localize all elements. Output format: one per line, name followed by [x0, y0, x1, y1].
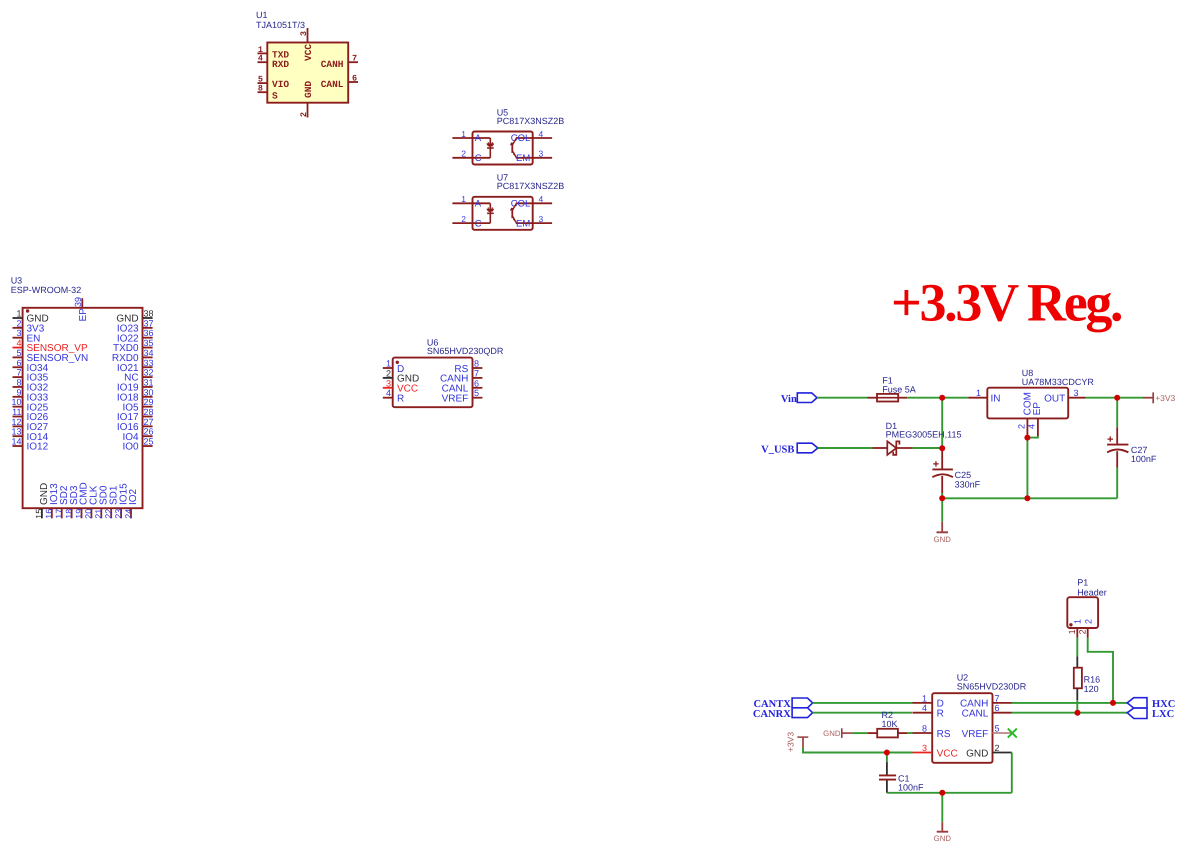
U5 pin 2 C: [452, 157, 490, 159]
wire node to +3V3 symbol: [1117, 397, 1143, 399]
capacitor C1 100nF: [879, 773, 924, 792]
wire CANTX to U2 D: [813, 702, 913, 704]
svg-text:+3V3: +3V3: [1155, 393, 1175, 403]
wire gnd node to GND symbol: [941, 793, 943, 822]
svg-text:330nF: 330nF: [955, 479, 981, 489]
U1 pin 4: [258, 61, 268, 63]
svg-text:2: 2: [1017, 424, 1027, 429]
svg-text:39: 39: [73, 297, 83, 307]
CAN transceiver U6 SN65HVD230QDR: [383, 337, 504, 407]
svg-text:1: 1: [922, 693, 927, 703]
svg-text:Fuse 5A: Fuse 5A: [882, 384, 916, 394]
svg-text:SN65HVD230QDR: SN65HVD230QDR: [427, 346, 504, 356]
U3 pin 17 SD2: [61, 508, 63, 518]
svg-text:C: C: [475, 153, 482, 164]
svg-text:37: 37: [144, 318, 154, 328]
port flag Vin: [781, 393, 817, 405]
ground flag GND (at R2): [823, 728, 852, 738]
svg-text:A: A: [475, 133, 482, 144]
U3 pin 19 CMD: [81, 508, 83, 518]
U6 body: [393, 358, 473, 408]
U3 pin 32 NC: [143, 376, 153, 378]
port flag CANTX: [753, 698, 812, 710]
svg-text:100nF: 100nF: [1131, 454, 1157, 464]
svg-text:CANH: CANH: [321, 59, 344, 70]
svg-text:PMEG3005EH,115: PMEG3005EH,115: [886, 430, 962, 440]
regulator U8 UA78M33CDCYR: [968, 368, 1094, 438]
svg-text:17: 17: [54, 509, 64, 519]
U3 pin 31 IO19: [143, 386, 153, 388]
U6 pin 4 R: [383, 397, 393, 399]
U5 pin 4 COL: [516, 137, 552, 139]
svg-text:29: 29: [144, 397, 154, 407]
no-connect X on U2 VREF pin 5: [1008, 729, 1017, 738]
svg-text:2: 2: [299, 112, 309, 117]
svg-text:6: 6: [995, 703, 1000, 713]
junction node VIN_F: [939, 395, 945, 401]
svg-text:VREF: VREF: [962, 729, 989, 740]
wire C25 to gnd rail: [941, 493, 943, 498]
svg-text:38: 38: [144, 309, 154, 319]
U3 pin 36 IO22: [143, 337, 153, 339]
svg-text:C: C: [475, 218, 482, 229]
svg-text:TJA1051T/3: TJA1051T/3: [256, 20, 305, 30]
svg-text:20: 20: [84, 509, 94, 519]
svg-text:IO2: IO2: [128, 488, 139, 505]
svg-text:19: 19: [74, 509, 84, 519]
svg-text:VCC: VCC: [303, 44, 314, 61]
U3 pin 7 IO35: [13, 376, 23, 378]
svg-text:+3V3: +3V3: [785, 732, 795, 752]
U2 pin 8 RS: [913, 732, 933, 734]
U7 pin 1 A: [452, 202, 490, 204]
U3 pin 20 CLK: [90, 508, 92, 518]
svg-text:3: 3: [539, 214, 544, 224]
R2 symbol: [868, 732, 878, 734]
svg-text:3: 3: [539, 149, 544, 159]
U3 pin 18 SD3: [71, 508, 73, 518]
U3 pin 3 EN: [13, 337, 23, 339]
junction node U2 VCC: [884, 750, 890, 756]
U3 pin 37 IO23: [143, 327, 153, 329]
svg-text:4: 4: [16, 338, 21, 348]
svg-text:30: 30: [144, 387, 154, 397]
svg-text:32: 32: [144, 368, 154, 378]
capacitor C25 330nF: [932, 448, 980, 493]
U2 pin 7 CANH: [993, 702, 1012, 704]
U3 pin 34 RXD0: [143, 356, 153, 358]
svg-text:Header: Header: [1077, 587, 1107, 597]
U2 pin 2 GND: [993, 752, 1012, 754]
svg-text:9: 9: [16, 387, 21, 397]
svg-text:22: 22: [104, 509, 114, 519]
U2 pin 6 CANL: [993, 712, 1012, 714]
svg-text:28: 28: [144, 407, 154, 417]
svg-text:2: 2: [995, 743, 1000, 753]
U2 pin 4 R: [913, 712, 933, 714]
svg-text:8: 8: [16, 377, 21, 387]
svg-text:11: 11: [12, 407, 21, 417]
U8 body: [987, 388, 1068, 419]
U3 pin 38 GND: [143, 317, 153, 319]
svg-text:IO12: IO12: [27, 442, 49, 453]
F1 symbol: [867, 397, 877, 399]
U3 pin 28 IO17: [143, 416, 153, 418]
svg-text:12: 12: [11, 417, 21, 427]
svg-text:GND: GND: [934, 535, 952, 544]
svg-text:1: 1: [461, 194, 466, 204]
ground symbol GND (power section): [934, 522, 952, 544]
svg-text:RS: RS: [937, 729, 951, 740]
U3 pin 14 IO12: [13, 445, 23, 447]
svg-text:36: 36: [144, 328, 154, 338]
CAN transceiver U2 SN65HVD230DR: [913, 673, 1027, 763]
U3 pin 5 SENSOR_VN: [13, 356, 23, 358]
wire GND flag to R2: [852, 732, 867, 734]
U1 pin 1: [258, 52, 268, 54]
wire U2 CANH to HXC: [1012, 702, 1128, 704]
svg-text:GND: GND: [934, 834, 952, 843]
svg-text:R: R: [937, 709, 944, 720]
svg-text:SN65HVD230DR: SN65HVD230DR: [957, 681, 1027, 691]
U3 pin 25 IO0: [143, 445, 153, 447]
svg-text:3: 3: [922, 743, 927, 753]
U3 pin 24 IO2: [130, 508, 132, 518]
U3 pin-1 marker dot: [26, 309, 29, 312]
wire node to U8 IN: [942, 397, 968, 399]
svg-text:VIO: VIO: [272, 79, 289, 90]
junction node bottom gnd: [939, 790, 945, 796]
U5 internal LED: [489, 138, 491, 144]
svg-text:4: 4: [922, 703, 927, 713]
svg-text:10K: 10K: [882, 719, 898, 729]
svg-text:OUT: OUT: [1044, 394, 1065, 405]
U8 pin 1 IN: [968, 397, 987, 399]
wire CANRX to U2 R: [813, 712, 913, 714]
diode D1 PMEG3005EH,115: [873, 421, 962, 455]
svg-text:PC817X3NSZ2B: PC817X3NSZ2B: [497, 181, 565, 191]
U5 body: [473, 132, 533, 165]
svg-text:4: 4: [539, 129, 544, 139]
svg-text:100nF: 100nF: [898, 783, 924, 793]
svg-text:GND: GND: [966, 748, 988, 759]
U1 pin 7: [348, 61, 358, 63]
U3 pin 6 IO34: [13, 366, 23, 368]
wire node to U2 VCC pin: [887, 752, 913, 754]
wire R16 bottom black: [1076, 688, 1078, 700]
svg-text:2: 2: [1084, 619, 1094, 624]
U6 pin 6 CANL: [473, 387, 483, 389]
U3 pin 29 IO5: [143, 406, 153, 408]
U1 pin 6: [348, 81, 358, 83]
U3 pin 2 3V3: [13, 327, 23, 329]
svg-text:14: 14: [11, 437, 21, 447]
svg-text:6: 6: [352, 74, 357, 84]
port flag V_USB: [761, 443, 818, 455]
U3 pin 8 IO32: [13, 386, 23, 388]
C27 symbol: [1116, 398, 1118, 428]
svg-text:10: 10: [11, 397, 21, 407]
svg-text:8: 8: [258, 84, 263, 94]
gnd rail wire: [942, 497, 1117, 499]
svg-text:35: 35: [144, 338, 154, 348]
svg-text:V_USB: V_USB: [761, 445, 794, 456]
U2 pin 5 VREF: [993, 732, 1012, 734]
U5 LED emission arrows: [487, 142, 490, 146]
U1 pin 3: [307, 28, 309, 43]
svg-text:5: 5: [995, 724, 1000, 734]
wire C1 to gnd rail: [886, 781, 888, 793]
svg-text:1: 1: [976, 388, 981, 398]
wire P1 pin1 to R16: [1076, 638, 1078, 657]
svg-text:EP: EP: [1032, 402, 1043, 416]
U1 pin 2: [307, 103, 309, 118]
junction node LXC at R16: [1075, 710, 1081, 716]
U3 body: [23, 308, 143, 508]
wire node down to D1 cathode node: [941, 398, 943, 449]
U3 pin 27 IO16: [143, 425, 153, 427]
U1 body: [267, 43, 348, 103]
U3 pin 39 EP: [81, 298, 83, 308]
U7 phototransistor: [511, 208, 513, 218]
port flag HXC: [1127, 698, 1175, 710]
wire gnd rail down to GND symbol: [941, 498, 943, 521]
power symbol +3V3 (U2 supply): [785, 732, 808, 752]
wire F1 to node VIN_F: [907, 397, 942, 399]
svg-text:4: 4: [539, 194, 544, 204]
optocoupler U7 PC817X3NSZ2B: [452, 173, 564, 230]
fuse F1 Fuse 5A: [867, 375, 916, 401]
junction node GND rail at C25: [939, 495, 945, 501]
svg-text:R: R: [397, 394, 404, 405]
gnd rail wire (bottom): [887, 792, 1012, 794]
resistor R16 120: [1074, 668, 1100, 694]
svg-text:34: 34: [144, 348, 154, 358]
svg-text:2: 2: [461, 149, 466, 159]
svg-text:2: 2: [461, 214, 466, 224]
power symbol +3V3 (regulator output): [1143, 392, 1176, 403]
svg-text:1: 1: [386, 359, 391, 369]
microcontroller U3 ESP-WROOM-32: [11, 276, 154, 519]
U3 pin 35 TXD0: [143, 347, 153, 349]
U3 pin 4 SENSOR_VP: [13, 347, 23, 349]
svg-text:S: S: [272, 91, 278, 102]
wire R2 to U2 RS: [907, 732, 913, 734]
svg-text:RXD: RXD: [272, 59, 289, 70]
svg-text:5: 5: [474, 388, 479, 398]
svg-text:CANRX: CANRX: [753, 709, 791, 720]
svg-text:3: 3: [299, 31, 309, 36]
svg-text:3: 3: [386, 378, 391, 388]
svg-text:120: 120: [1084, 684, 1099, 694]
svg-text:7: 7: [352, 54, 357, 64]
U8 pin 3 OUT: [1068, 397, 1086, 399]
svg-text:UA78M33CDCYR: UA78M33CDCYR: [1022, 377, 1095, 387]
svg-text:A: A: [475, 199, 482, 210]
svg-text:1: 1: [16, 309, 21, 319]
U6 pin 1 D: [383, 367, 393, 369]
svg-text:16: 16: [44, 509, 54, 519]
U2 body: [932, 693, 992, 763]
U3 pin 1 GND: [13, 317, 23, 319]
svg-text:EM: EM: [516, 218, 530, 229]
junction node U8 COM: [1024, 435, 1030, 441]
U3 pin 13 IO14: [13, 435, 23, 437]
U3 pin 15 GND: [41, 508, 43, 518]
svg-text:4: 4: [258, 54, 263, 64]
svg-text:18: 18: [64, 509, 74, 519]
svg-text:4: 4: [386, 388, 391, 398]
U6 pin 5 VREF: [473, 397, 483, 399]
svg-text:2: 2: [16, 318, 21, 328]
U5 phototransistor: [511, 143, 513, 153]
ground symbol GND (bottom): [934, 822, 952, 843]
U5 pin 1 A: [452, 137, 490, 139]
svg-text:VCC: VCC: [937, 748, 958, 759]
svg-text:ESP-WROOM-32: ESP-WROOM-32: [11, 285, 82, 295]
wire D1 to node VUSB_D: [913, 447, 943, 449]
svg-text:31: 31: [144, 377, 154, 387]
svg-text:3: 3: [16, 328, 21, 338]
U6 pin 8 RS: [473, 367, 483, 369]
U2 pin 3 VCC: [913, 752, 933, 754]
svg-text:27: 27: [144, 417, 154, 427]
svg-text:7: 7: [474, 368, 479, 378]
transceiver U1 TJA1051T/3: [256, 10, 358, 118]
wire +3V3 to VCC node: [803, 748, 887, 753]
junction node OUT_3V3: [1114, 395, 1120, 401]
U7 internal LED: [489, 203, 491, 209]
wire U8 OUT to +3V3 node: [1086, 397, 1117, 399]
U5 pin 3 EM: [516, 157, 552, 159]
U7 pin 2 C: [452, 222, 490, 224]
P1 pin-1 marker dot: [1069, 623, 1072, 626]
svg-text:23: 23: [113, 509, 123, 519]
port flag CANRX: [753, 708, 813, 720]
svg-text:6: 6: [474, 378, 479, 388]
wire EP to COM node: [1027, 436, 1038, 438]
svg-text:21: 21: [94, 509, 104, 519]
wire U2 CANL to LXC: [1012, 712, 1128, 714]
svg-text:CANL: CANL: [962, 709, 989, 720]
wire P1 pin2 to HXC net: [1088, 638, 1113, 703]
U7 pin 4 COL: [516, 202, 552, 204]
C1 symbol: [879, 774, 896, 776]
wire black to R16 top: [1076, 656, 1078, 667]
U3 pin 23 IO15: [120, 508, 122, 518]
svg-text:EP: EP: [78, 308, 89, 322]
U3 pin 22 SD1: [110, 508, 112, 518]
svg-text:CANL: CANL: [321, 79, 344, 90]
svg-text:2: 2: [386, 368, 391, 378]
wire U2 GND down to rail: [1011, 753, 1013, 793]
svg-text:+3.3V Reg.: +3.3V Reg.: [891, 273, 1122, 333]
svg-text:R16: R16: [1084, 674, 1101, 684]
U3 pin 9 IO33: [13, 396, 23, 398]
svg-text:7: 7: [995, 693, 1000, 703]
U6 pin 3 VCC: [383, 387, 393, 389]
svg-text:1: 1: [461, 129, 466, 139]
svg-text:EM: EM: [516, 153, 530, 164]
svg-text:U1: U1: [256, 10, 268, 20]
R16 symbol: [1074, 668, 1082, 689]
U3 pin 30 IO18: [143, 396, 153, 398]
svg-text:VREF: VREF: [442, 394, 469, 405]
optocoupler U5 PC817X3NSZ2B: [452, 107, 564, 164]
port flag LXC: [1127, 708, 1174, 720]
D1 symbol: [873, 447, 888, 449]
svg-text:7: 7: [16, 368, 21, 378]
U7 body: [473, 197, 533, 230]
svg-text:6: 6: [16, 358, 21, 368]
svg-text:P1: P1: [1077, 578, 1088, 588]
svg-text:4: 4: [1026, 424, 1036, 429]
U7 LED emission arrows: [487, 207, 490, 211]
C25 symbol: [941, 448, 943, 468]
resistor R2 10K: [868, 710, 907, 737]
svg-text:25: 25: [144, 437, 154, 447]
U7 pin 3 EM: [516, 222, 552, 224]
U3 pin 12 IO27: [13, 425, 23, 427]
svg-text:13: 13: [11, 427, 21, 437]
svg-text:1: 1: [1067, 629, 1077, 634]
capacitor C27 100nF: [1107, 398, 1157, 499]
svg-text:LXC: LXC: [1152, 709, 1174, 720]
svg-text:15: 15: [34, 509, 44, 519]
U3 pin 33 IO21: [143, 366, 153, 368]
svg-text:IN: IN: [991, 394, 1001, 405]
svg-text:5: 5: [16, 348, 21, 358]
wire R16 to LXC net: [1076, 700, 1078, 712]
wire Vin to F1: [817, 397, 867, 399]
svg-text:GND: GND: [823, 729, 841, 738]
U3 pin 26 IO4: [143, 435, 153, 437]
svg-text:Vin: Vin: [781, 394, 797, 405]
U3 pin 16 IO13: [51, 508, 53, 518]
svg-text:3: 3: [1074, 388, 1079, 398]
svg-text:26: 26: [144, 427, 154, 437]
U2 pin 1 D: [913, 702, 933, 704]
junction node HXC at P1: [1110, 700, 1116, 706]
wire COM node to gnd rail: [1026, 438, 1028, 499]
U3 pin 11 IO26: [13, 416, 23, 418]
U3 pin 21 SD0: [100, 508, 102, 518]
svg-text:IO0: IO0: [122, 442, 139, 453]
svg-text:1: 1: [1072, 619, 1082, 624]
junction node VUSB_D: [939, 445, 945, 451]
wire VCC node down to C1: [886, 753, 888, 763]
wire V_USB to D1: [818, 447, 873, 449]
U6 pin-1 marker dot: [396, 361, 399, 364]
svg-text:33: 33: [144, 358, 154, 368]
junction node gnd rail at U8: [1024, 495, 1030, 501]
U1 pin 5: [258, 82, 268, 84]
svg-text:PC817X3NSZ2B: PC817X3NSZ2B: [497, 116, 565, 126]
svg-text:GND: GND: [303, 81, 314, 98]
svg-text:8: 8: [474, 359, 479, 369]
U6 pin 2 GND: [383, 377, 393, 379]
U3 pin 10 IO25: [13, 406, 23, 408]
connector P1 Header: [1067, 578, 1107, 638]
svg-text:24: 24: [123, 509, 133, 519]
U6 pin 7 CANH: [473, 377, 483, 379]
P1 body: [1067, 597, 1098, 628]
U1 pin 8: [258, 91, 268, 93]
svg-text:2: 2: [1078, 629, 1088, 634]
svg-text:8: 8: [922, 724, 927, 734]
